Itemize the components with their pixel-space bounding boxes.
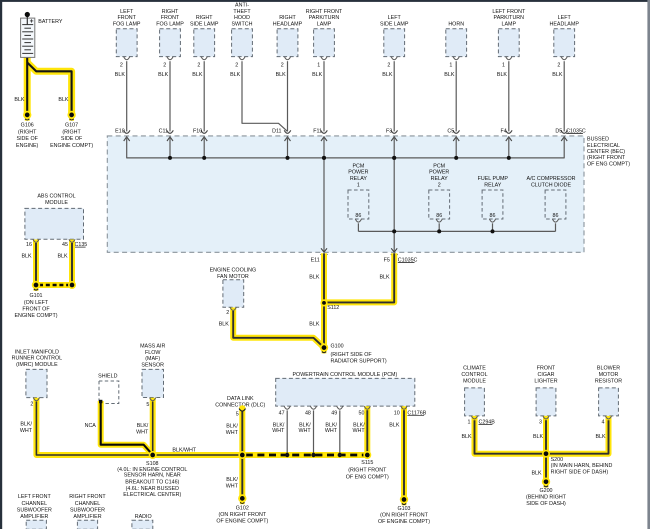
svg-text:FRONT: FRONT (161, 15, 180, 21)
svg-text:BLK: BLK (379, 275, 390, 281)
svg-text:RESISTOR: RESISTOR (595, 379, 622, 385)
svg-text:PCM: PCM (352, 163, 364, 169)
svg-text:C11: C11 (159, 128, 168, 134)
svg-text:OF ENG COMPT): OF ENG COMPT) (587, 161, 630, 167)
svg-text:D5: D5 (555, 128, 562, 134)
svg-text:2: 2 (163, 63, 166, 69)
svg-text:BLK/: BLK/ (20, 422, 32, 428)
svg-text:WHT: WHT (20, 428, 33, 434)
svg-text:BLK/: BLK/ (226, 424, 238, 430)
svg-text:SIDE OF: SIDE OF (17, 136, 39, 142)
svg-text:POWER: POWER (348, 170, 368, 176)
svg-text:BLK: BLK (21, 253, 32, 259)
svg-text:(ON RIGHT FRONT: (ON RIGHT FRONT (218, 512, 266, 518)
svg-text:A/C COMPRESSOR: A/C COMPRESSOR (527, 176, 576, 182)
svg-text:2: 2 (226, 310, 229, 316)
svg-text:FAN MOTOR: FAN MOTOR (217, 274, 249, 280)
svg-text:BLK/: BLK/ (137, 423, 149, 429)
svg-text:2: 2 (281, 63, 284, 69)
svg-text:BLK: BLK (444, 72, 455, 78)
svg-text:RIGHT: RIGHT (196, 15, 213, 21)
svg-text:G103: G103 (397, 506, 410, 512)
svg-text:BUSSED: BUSSED (587, 137, 609, 143)
svg-text:LEFT: LEFT (558, 15, 572, 21)
svg-text:1: 1 (502, 63, 505, 69)
svg-text:WHT: WHT (226, 484, 239, 490)
svg-text:BLK: BLK (14, 97, 25, 103)
svg-text:CLUTCH DIODE: CLUTCH DIODE (531, 183, 572, 189)
svg-text:BLK: BLK (158, 72, 169, 78)
svg-text:CLIMATE: CLIMATE (463, 366, 486, 372)
svg-text:(ON RIGHT FRONT: (ON RIGHT FRONT (380, 512, 428, 518)
svg-text:10: 10 (394, 410, 400, 416)
svg-text:CIGAR: CIGAR (538, 372, 555, 378)
svg-text:G107: G107 (65, 122, 78, 128)
svg-text:ENGINE COMPT): ENGINE COMPT) (14, 313, 57, 319)
svg-text:SENSOR HARN, NEAR: SENSOR HARN, NEAR (124, 473, 181, 479)
svg-text:45: 45 (62, 242, 68, 248)
svg-text:LIGHTER: LIGHTER (534, 379, 557, 385)
svg-text:86: 86 (553, 213, 559, 219)
svg-text:BLOWER: BLOWER (597, 366, 620, 372)
svg-text:LAMP: LAMP (502, 22, 517, 28)
svg-text:(RIGHT SIDE OF: (RIGHT SIDE OF (331, 352, 373, 358)
svg-text:FRONT: FRONT (537, 366, 556, 372)
svg-text:FUEL PUMP: FUEL PUMP (478, 176, 509, 182)
svg-text:RADIO: RADIO (135, 514, 152, 520)
svg-text:ENGINE COOLING: ENGINE COOLING (210, 268, 257, 274)
svg-text:THEFT: THEFT (233, 9, 251, 15)
svg-text:C5: C5 (447, 128, 454, 134)
svg-text:SIDE OF: SIDE OF (61, 136, 83, 142)
svg-text:S200: S200 (551, 457, 564, 463)
svg-text:G101: G101 (29, 293, 42, 299)
svg-text:47: 47 (279, 410, 285, 416)
svg-text:E10: E10 (115, 128, 125, 134)
svg-text:BLK: BLK (58, 97, 69, 103)
svg-text:CENTER (BEC): CENTER (BEC) (587, 149, 625, 155)
svg-text:G102: G102 (236, 506, 249, 512)
svg-text:RELAY: RELAY (484, 183, 502, 189)
svg-text:CHANNEL: CHANNEL (22, 501, 48, 507)
svg-text:PCM: PCM (433, 163, 445, 169)
svg-text:BLK: BLK (552, 72, 563, 78)
svg-text:RADIATOR SUPPORT): RADIATOR SUPPORT) (331, 358, 387, 364)
svg-text:1: 1 (317, 63, 320, 69)
svg-text:F4: F4 (501, 128, 507, 134)
svg-text:1: 1 (357, 183, 360, 189)
svg-text:D11: D11 (272, 128, 281, 134)
svg-text:RIGHT: RIGHT (162, 9, 179, 15)
svg-text:DATA LINK: DATA LINK (227, 396, 254, 402)
svg-text:2: 2 (438, 183, 441, 189)
svg-text:ELECTRICAL: ELECTRICAL (587, 143, 620, 149)
svg-text:F10: F10 (193, 128, 202, 134)
svg-text:BLK: BLK (230, 72, 241, 78)
svg-text:MODULE: MODULE (463, 379, 486, 385)
svg-text:ELECTRICAL CENTER): ELECTRICAL CENTER) (123, 492, 181, 498)
svg-text:FOG LAMP: FOG LAMP (113, 22, 141, 28)
svg-text:SENSOR: SENSOR (141, 362, 164, 368)
svg-text:ANTI-: ANTI- (235, 2, 249, 8)
svg-text:(RIGHT: (RIGHT (18, 129, 37, 135)
svg-text:(IN MAIN HARN, BEHIND: (IN MAIN HARN, BEHIND (551, 463, 613, 469)
svg-text:CHANNEL: CHANNEL (75, 501, 101, 507)
svg-text:(RIGHT: (RIGHT (62, 129, 81, 135)
svg-text:BLK: BLK (531, 471, 542, 477)
svg-text:BLK: BLK (309, 321, 320, 327)
svg-text:HOOD: HOOD (234, 15, 250, 21)
svg-text:FRONT: FRONT (117, 15, 136, 21)
svg-text:F11: F11 (313, 128, 322, 134)
svg-text:SWITCH: SWITCH (231, 22, 252, 28)
svg-text:BLK: BLK (497, 72, 508, 78)
svg-text:CONTROL: CONTROL (461, 372, 487, 378)
svg-text:E11: E11 (311, 257, 320, 263)
svg-text:RELAY: RELAY (431, 176, 449, 182)
svg-text:LEFT FRONT: LEFT FRONT (492, 9, 526, 15)
svg-text:4: 4 (602, 419, 605, 425)
svg-text:F3: F3 (386, 128, 392, 134)
svg-text:F5: F5 (384, 257, 390, 263)
svg-text:ENGINE): ENGINE) (16, 143, 38, 149)
svg-text:5: 5 (236, 412, 239, 418)
svg-text:SIDE LAMP: SIDE LAMP (380, 22, 409, 28)
svg-text:BLK: BLK (382, 72, 393, 78)
svg-text:RELAY: RELAY (350, 176, 368, 182)
svg-text:RIGHT FRONT: RIGHT FRONT (69, 494, 106, 500)
svg-text:MOTOR: MOTOR (599, 372, 619, 378)
svg-text:1: 1 (468, 419, 471, 425)
svg-text:MODULE: MODULE (45, 200, 68, 206)
svg-text:MASS AIR: MASS AIR (140, 343, 165, 349)
svg-text:(RIGHT FRONT: (RIGHT FRONT (348, 468, 387, 474)
svg-text:G106: G106 (21, 122, 34, 128)
svg-text:FLOW: FLOW (145, 350, 161, 356)
svg-text:ABS CONTROL: ABS CONTROL (37, 194, 75, 200)
svg-text:2: 2 (30, 401, 33, 407)
svg-text:HEADLAMP: HEADLAMP (549, 22, 579, 28)
svg-text:3: 3 (539, 419, 542, 425)
svg-text:ENGINE COMPT): ENGINE COMPT) (50, 143, 93, 149)
svg-text:HORN: HORN (448, 22, 464, 28)
svg-text:LAMP: LAMP (317, 22, 332, 28)
svg-text:FOG LAMP: FOG LAMP (156, 22, 184, 28)
svg-text:2: 2 (387, 63, 390, 69)
svg-text:86: 86 (355, 213, 361, 219)
svg-text:RIGHT FRONT: RIGHT FRONT (306, 9, 343, 15)
svg-text:BLK: BLK (219, 321, 230, 327)
svg-text:(MAF): (MAF) (145, 356, 160, 362)
svg-text:WHT: WHT (353, 428, 366, 434)
svg-text:BLK: BLK (192, 72, 203, 78)
svg-text:BLK: BLK (461, 434, 472, 440)
svg-text:5: 5 (146, 402, 149, 408)
svg-text:2: 2 (197, 63, 200, 69)
svg-text:AMPLIFIER: AMPLIFIER (20, 514, 48, 520)
svg-text:FRONT OF: FRONT OF (22, 307, 50, 313)
svg-text:16: 16 (26, 242, 32, 248)
svg-text:OF ENG COMPT): OF ENG COMPT) (346, 474, 389, 480)
svg-text:BLK: BLK (309, 275, 320, 281)
svg-text:(BEHIND RIGHT: (BEHIND RIGHT (526, 495, 567, 501)
svg-text:LEFT FRONT: LEFT FRONT (18, 494, 52, 500)
svg-text:86: 86 (436, 213, 442, 219)
svg-text:POWERTRAIN CONTROL MODULE (PCM: POWERTRAIN CONTROL MODULE (PCM) (292, 372, 397, 378)
svg-text:BLK/: BLK/ (226, 477, 238, 483)
svg-text:BATTERY: BATTERY (38, 19, 63, 25)
svg-text:SIDE OF DASH): SIDE OF DASH) (526, 501, 566, 507)
svg-text:86: 86 (490, 213, 496, 219)
svg-text:S112: S112 (327, 305, 339, 311)
svg-text:WHT: WHT (325, 428, 338, 434)
svg-text:RUNNER CONTROL: RUNNER CONTROL (12, 356, 62, 362)
svg-text:PARK/TURN: PARK/TURN (494, 15, 525, 21)
svg-text:BLK: BLK (533, 434, 544, 440)
svg-text:RIGHT SIDE OF DASH): RIGHT SIDE OF DASH) (551, 470, 609, 476)
svg-text:2: 2 (235, 63, 238, 69)
svg-text:50: 50 (359, 410, 365, 416)
svg-text:G100: G100 (331, 344, 344, 350)
svg-text:(RIGHT FRONT: (RIGHT FRONT (587, 155, 626, 161)
svg-text:HEADLAMP: HEADLAMP (273, 22, 303, 28)
svg-text:49: 49 (331, 410, 337, 416)
svg-text:1: 1 (449, 63, 452, 69)
svg-text:BLK: BLK (115, 72, 126, 78)
svg-text:BLK: BLK (276, 72, 287, 78)
svg-text:G200: G200 (539, 488, 552, 494)
svg-text:2: 2 (557, 63, 560, 69)
svg-text:S115: S115 (361, 460, 373, 466)
svg-text:BLK: BLK (595, 434, 606, 440)
svg-text:WHT: WHT (226, 430, 239, 436)
svg-text:BREAKOUT TO C146): BREAKOUT TO C146) (125, 479, 179, 485)
svg-text:OF ENGINE COMPT): OF ENGINE COMPT) (216, 519, 268, 525)
svg-text:2: 2 (120, 63, 123, 69)
svg-text:(IMRC) MODULE: (IMRC) MODULE (16, 362, 58, 368)
svg-text:BLK: BLK (57, 253, 68, 259)
svg-text:BLK/WHT: BLK/WHT (172, 447, 196, 453)
svg-text:(ON LEFT: (ON LEFT (24, 300, 49, 306)
svg-text:POWER: POWER (429, 170, 449, 176)
svg-text:SIDE LAMP: SIDE LAMP (190, 22, 219, 28)
svg-text:WHT: WHT (299, 428, 312, 434)
svg-text:INLET MANIFOLD: INLET MANIFOLD (15, 349, 59, 355)
svg-text:LEFT: LEFT (388, 15, 402, 21)
svg-text:WHT: WHT (136, 430, 149, 436)
svg-text:48: 48 (305, 410, 311, 416)
svg-text:SHIELD: SHIELD (98, 374, 117, 380)
svg-text:SUBWOOFER: SUBWOOFER (17, 508, 52, 514)
svg-text:PARK/TURN: PARK/TURN (309, 15, 340, 21)
svg-text:RIGHT: RIGHT (279, 15, 296, 21)
svg-text:BLK: BLK (389, 422, 400, 428)
svg-text:SUBWOOFER: SUBWOOFER (70, 508, 105, 514)
svg-text:BLK: BLK (312, 72, 323, 78)
svg-text:OF ENGINE COMPT): OF ENGINE COMPT) (378, 519, 430, 525)
svg-text:WHT: WHT (272, 428, 285, 434)
svg-text:NCA: NCA (85, 423, 97, 429)
svg-text:LEFT: LEFT (120, 9, 134, 15)
svg-text:AMPLIFIER: AMPLIFIER (73, 514, 101, 520)
